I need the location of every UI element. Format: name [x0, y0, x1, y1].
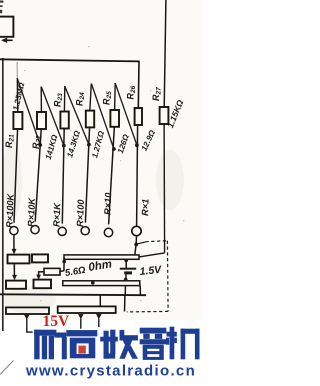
5.6Ω right lead [60, 258, 64, 272]
label R23 [53, 93, 65, 107]
switch pad deck2 left [6, 281, 26, 289]
switch contact R×10K [31, 226, 39, 234]
wire bar to R27 [139, 253, 165, 257]
value 1.27KΩ [90, 129, 106, 159]
node dot R26 [135, 143, 139, 147]
ground bus [0, 293, 146, 296]
R23 stub wire [63, 86, 65, 112]
node dot R23 [62, 144, 66, 148]
watermark 音 inner slits [147, 349, 159, 351]
R23 lower wire [62, 128, 64, 224]
rotor bar right [58, 306, 116, 313]
resistor R27 [160, 107, 169, 124]
value 14.3KΩ [65, 129, 82, 159]
top rail wire [0, 59, 139, 61]
wire R×1 contact down [135, 236, 137, 245]
range label R×100 [75, 199, 86, 228]
svg-text:R×100: R×100 [75, 199, 86, 228]
node dot R24 [87, 143, 91, 147]
dashed battery box top [146, 241, 168, 242]
label R21 [4, 134, 16, 148]
wire pad1a to padC [13, 264, 15, 276]
dashed battery box bottom [127, 310, 168, 313]
label R25 [102, 91, 114, 105]
range label R×1K [52, 202, 63, 227]
meter arrow [5, 39, 13, 41]
range label R×1 [140, 199, 151, 216]
switch pad deck1 left [8, 255, 30, 264]
wire bar right end to bus [139, 286, 141, 295]
diagonal R25 top to R26 node [115, 84, 137, 146]
R27 feed wire from top edge [164, 0, 166, 108]
svg-text:www.crystalradio.cn: www.crystalradio.cn [25, 363, 196, 380]
R25 stub wire [114, 83, 117, 111]
node dot R25 [112, 147, 116, 151]
label R24 [75, 92, 87, 106]
wiper wire mid [80, 319, 82, 333]
battery B1 short plate [124, 271, 132, 274]
value 5.6Ω [64, 265, 87, 279]
label R27 [151, 87, 163, 101]
label 1.5V [139, 264, 163, 278]
diagonal R24 top to R25 node [92, 84, 114, 149]
node dot lower bar [91, 281, 95, 285]
wire contact to pad [13, 235, 15, 250]
bus bar upper [64, 255, 139, 259]
R24 stub wire [90, 84, 92, 112]
watermark 石 inner [77, 343, 89, 354]
R22 stub wire [40, 87, 42, 113]
R21 stub wire [16, 78, 18, 113]
switch contact R×10 [104, 228, 112, 236]
value 126Ω [116, 132, 131, 154]
resistor R23 [60, 112, 68, 129]
rail corner drop to R26 [137, 61, 140, 109]
svg-text:R×100K: R×100K [5, 192, 16, 228]
wiper arrow mid [78, 314, 84, 319]
label R22 [31, 135, 43, 149]
diagonal R22 top to R23 node [41, 87, 63, 146]
wiper arrow left [24, 314, 30, 319]
node dot R×1 branch [134, 243, 138, 247]
svg-text:R×1: R×1 [140, 199, 151, 216]
value 12.9Ω [140, 128, 158, 152]
left frame border wire [2, 58, 4, 331]
svg-text:15V: 15V [43, 313, 71, 330]
wiper wire left [27, 319, 81, 333]
wire node to upper bar [135, 244, 136, 255]
node dot battery bottom [124, 278, 128, 282]
svg-text:R×10K: R×10K [26, 197, 37, 228]
range label R×10K [26, 197, 37, 228]
wire bus to 15V battery [124, 296, 126, 312]
node dot battery top [124, 259, 128, 263]
value 1.23MΩ [11, 81, 26, 112]
battery B1 long plate [120, 268, 136, 270]
switch contact R×100 [81, 227, 89, 235]
resistor R25 [110, 110, 119, 127]
wiper wire right [98, 319, 100, 327]
svg-text:1.5V: 1.5V [139, 264, 163, 278]
wire bus to rotor bar [99, 296, 101, 307]
resistor R24 [86, 111, 94, 128]
range label R×10 [103, 192, 114, 215]
svg-text:R×10: R×10 [103, 192, 114, 215]
dashed battery box right [166, 241, 169, 312]
diagonal R21 top to R22 node [18, 79, 41, 145]
stray pencil line bottom left [0, 361, 14, 375]
wire bar to battery [125, 259, 127, 268]
resistor 5.6Ω [44, 268, 60, 275]
resistor R21 [13, 112, 22, 129]
bus bar lower [63, 281, 140, 286]
R21 faint stub to rail [16, 62, 18, 79]
node dot 5.6Ω junction [62, 260, 66, 264]
wire battery to lower bar [125, 274, 127, 281]
R26 lower wire [137, 125, 138, 226]
switch contact R×1 [132, 226, 141, 235]
wire branch to dashed box [136, 242, 145, 244]
R24 lower wire [85, 127, 89, 223]
scan mottling [2, 140, 184, 314]
svg-text:R×1K: R×1K [52, 202, 63, 227]
paper background [0, 0, 201, 386]
5.6Ω left lead [39, 272, 44, 276]
label Ohm adjust [88, 258, 113, 274]
value 1.15KΩ [165, 98, 185, 129]
range label R×100K [5, 192, 16, 228]
cut text fragment top-left [0, 1, 3, 3]
wire lower bar to bus [124, 286, 126, 295]
switch contact R×1K [58, 227, 66, 235]
switch pad deck2 mid [34, 280, 52, 289]
R27 lower wire [163, 124, 166, 253]
switch pad deck1 mid [32, 254, 48, 262]
R25 lower wire [109, 126, 115, 224]
resistor R26 [135, 108, 142, 125]
resistor R22 [37, 112, 46, 129]
label R26 [126, 85, 138, 99]
switch contact R×100K [10, 227, 18, 235]
rotor bar left [6, 307, 49, 314]
R21 lower wire [14, 128, 18, 222]
value 141KΩ [44, 133, 60, 161]
node dot R22 [38, 143, 42, 147]
wiper arrow right [96, 314, 102, 319]
meter M (cut at left edge) [0, 17, 13, 37]
R22 lower wire [35, 128, 41, 221]
diagonal R23 top to R24 node [65, 87, 89, 145]
